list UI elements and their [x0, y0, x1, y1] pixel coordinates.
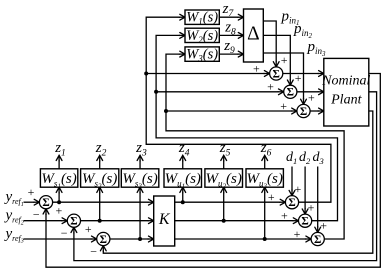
- svg-text:+: +: [281, 209, 288, 223]
- svg-text:Σ: Σ: [273, 68, 280, 80]
- svg-text:+: +: [267, 80, 274, 94]
- svg-text:+: +: [308, 90, 315, 104]
- svg-text:+: +: [294, 227, 301, 241]
- svg-text:+: +: [280, 99, 287, 113]
- svg-text:Σ: Σ: [314, 234, 321, 246]
- svg-text:+: +: [253, 61, 260, 75]
- svg-text:Σ: Σ: [300, 106, 307, 118]
- svg-text:+: +: [295, 182, 302, 196]
- svg-text:Σ: Σ: [287, 87, 294, 99]
- svg-text:+: +: [320, 219, 327, 233]
- svg-text:+: +: [56, 204, 63, 218]
- svg-text:−: −: [90, 244, 97, 258]
- svg-text:+: +: [268, 190, 275, 204]
- svg-text:Σ: Σ: [100, 234, 107, 246]
- svg-text:W2(s): W2(s): [186, 28, 218, 45]
- svg-text:Δ: Δ: [247, 23, 260, 44]
- svg-text:−: −: [33, 208, 40, 222]
- svg-text:+: +: [308, 200, 315, 214]
- svg-text:−: −: [61, 226, 68, 240]
- svg-text:Σ: Σ: [42, 197, 49, 209]
- svg-text:Σ: Σ: [288, 197, 295, 209]
- svg-text:+: +: [281, 53, 288, 67]
- svg-text:Σ: Σ: [301, 216, 308, 228]
- svg-text:Σ: Σ: [70, 216, 77, 228]
- svg-text:W1(s): W1(s): [186, 10, 218, 27]
- svg-text:Plant: Plant: [330, 92, 362, 107]
- svg-text:K: K: [158, 211, 171, 228]
- svg-text:+: +: [28, 185, 35, 199]
- svg-text:W3(s): W3(s): [186, 47, 218, 64]
- svg-text:+: +: [85, 222, 92, 236]
- svg-text:+: +: [295, 71, 302, 85]
- svg-text:Nominal: Nominal: [321, 73, 370, 88]
